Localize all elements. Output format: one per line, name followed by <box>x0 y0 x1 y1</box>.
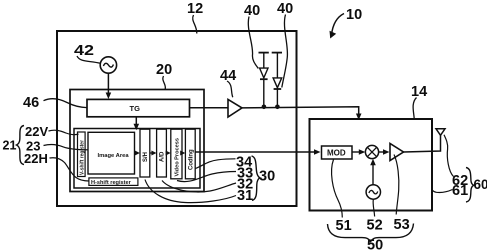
label 40 (first LED) <box>244 3 260 69</box>
label 46 <box>23 95 87 111</box>
video process block 33 <box>171 129 182 179</box>
amplifier 44 <box>228 99 242 117</box>
label 62 <box>444 135 468 189</box>
coding block 34 <box>185 129 195 179</box>
A/D block 32 <box>157 129 167 177</box>
oscillator 42 (clock source) <box>100 57 116 73</box>
wire amplifier to antenna <box>404 135 441 152</box>
svg-text:22H: 22H <box>24 151 48 166</box>
label 10 with arrow <box>330 7 363 39</box>
transmitter unit box 14 <box>310 119 433 211</box>
label 22H <box>24 151 89 181</box>
wire TG to CCD block with arrow <box>134 117 140 130</box>
label 61 <box>432 183 468 199</box>
svg-text:H-shift register: H-shift register <box>91 180 132 186</box>
svg-text:TG: TG <box>130 104 141 113</box>
label 21 group brace <box>3 126 25 165</box>
brace 30 <box>252 156 276 201</box>
label 33 <box>177 166 253 182</box>
wire oscillator 42 to TG with arrow <box>106 73 112 99</box>
label 12 <box>187 1 203 34</box>
wire coding output to MOD with arrow <box>195 149 320 154</box>
wire S/H to A/D with arrow <box>150 151 157 156</box>
svg-text:51: 51 <box>336 218 352 234</box>
wire amplifier 44 output to transmitter with corner and arrow into box 14 <box>242 107 362 120</box>
LED D1 (40) terminal bar <box>259 52 269 54</box>
label 20 <box>156 62 172 89</box>
svg-text:10: 10 <box>346 7 362 23</box>
svg-text:53: 53 <box>394 217 410 233</box>
image area <box>88 132 135 174</box>
wire oscillator 52 to mixer with arrow <box>370 159 376 185</box>
svg-text:MOD: MOD <box>327 149 346 158</box>
LED D1 (40) <box>260 53 268 105</box>
wire MOD to mixer with arrow <box>352 149 365 154</box>
wire video process to coding with arrow <box>180 151 185 156</box>
label 44 <box>220 68 236 97</box>
svg-text:14: 14 <box>411 84 427 100</box>
svg-text:50: 50 <box>367 238 383 250</box>
junction dot LED 2 <box>275 105 280 110</box>
label 53 <box>394 155 410 234</box>
svg-text:30: 30 <box>259 169 275 185</box>
wire mixer to amplifier with arrow <box>379 149 390 154</box>
svg-text:A/D: A/D <box>160 151 166 162</box>
svg-text:60: 60 <box>474 177 487 192</box>
label 51 <box>332 160 352 235</box>
junction dot LED 1 <box>262 105 267 110</box>
svg-text:12: 12 <box>187 1 203 17</box>
brace 50 <box>328 224 414 250</box>
label 52 <box>367 200 383 234</box>
label 32 <box>162 177 253 193</box>
wire A/D to video process with arrow <box>166 151 171 156</box>
S/H block 31 <box>140 129 150 177</box>
label 22V <box>25 124 79 139</box>
svg-text:22V: 22V <box>25 124 48 139</box>
svg-text:V-shift register: V-shift register <box>79 140 85 175</box>
mixer (circle with X) <box>365 145 378 158</box>
LED D2 (40) terminal bar <box>272 52 282 54</box>
camera unit box 12 <box>57 31 297 206</box>
label 31 <box>145 180 253 205</box>
label 23 <box>26 139 88 154</box>
svg-text:20: 20 <box>156 62 172 78</box>
svg-text:Video Process: Video Process <box>175 138 181 176</box>
svg-text:31: 31 <box>237 188 253 204</box>
RF amplifier 53 <box>390 144 404 161</box>
label 14 <box>411 84 427 119</box>
antenna 62 <box>436 129 445 136</box>
LED D2 (40) <box>273 53 282 105</box>
svg-text:40: 40 <box>244 3 260 19</box>
brace 60 <box>466 168 487 203</box>
timing generator TG <box>87 99 190 116</box>
svg-text:Coding: Coding <box>188 149 194 170</box>
modulator MOD 51 <box>322 146 353 159</box>
H-shift register <box>89 178 138 186</box>
imaging/processing unit box 20 <box>70 90 204 192</box>
svg-text:S/H: S/H <box>143 152 149 162</box>
label 40 (second LED) <box>277 1 293 88</box>
svg-text:46: 46 <box>23 95 39 111</box>
svg-text:Image Area: Image Area <box>98 153 130 159</box>
label 34 <box>196 155 253 171</box>
svg-text:52: 52 <box>367 218 383 234</box>
svg-text:61: 61 <box>452 183 468 199</box>
CCD chip inner box <box>74 129 200 189</box>
V-shift register <box>78 132 86 177</box>
label 42 <box>74 43 100 63</box>
wire image area to S/H with arrow <box>135 151 140 156</box>
wire TG output to amplifier 44 <box>190 107 228 109</box>
local oscillator 52 <box>366 185 380 199</box>
svg-text:21: 21 <box>3 139 17 153</box>
